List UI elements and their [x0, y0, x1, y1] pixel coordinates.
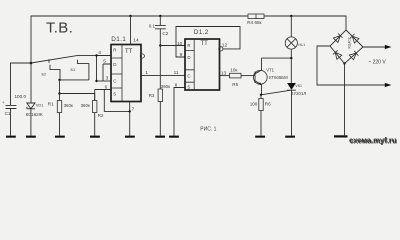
wire R1 to R2 link — [60, 94, 95, 101]
ground VD1 — [26, 136, 36, 138]
pin 2 inverted output circle — [140, 54, 144, 58]
bridge diode top-left — [333, 33, 342, 42]
wire bridge left to mains — [317, 46, 386, 85]
svg-text:R6: R6 — [265, 102, 271, 107]
wire bridge bottom to ground — [344, 64, 346, 136]
flip-flop D1.1 — [111, 45, 141, 102]
svg-text:~ 220 V: ~ 220 V — [368, 60, 386, 66]
flip-flop D1.2 — [185, 39, 220, 90]
resistor R4 68к in rail — [248, 14, 264, 19]
resistor R3 360к — [158, 89, 162, 102]
svg-text:D: D — [113, 62, 116, 67]
svg-text:R1: R1 — [48, 101, 54, 106]
transistor VT1 КТ605БМ — [253, 70, 267, 84]
svg-text:D1.1: D1.1 — [111, 36, 126, 43]
wire collector to lamp node — [262, 57, 292, 59]
wire gate — [261, 90, 290, 95]
svg-text:HL1: HL1 — [298, 43, 305, 47]
svg-text:11: 11 — [174, 70, 179, 76]
svg-text:КС162Ж: КС162Ж — [26, 112, 43, 117]
ground R2 — [90, 136, 100, 138]
ground pin8 — [169, 136, 179, 138]
svg-text:R2: R2 — [98, 113, 104, 118]
svg-text:14: 14 — [133, 38, 139, 44]
svg-text:D1.2: D1.2 — [194, 29, 209, 36]
ground R1 — [55, 136, 65, 138]
svg-text:РИС. 1: РИС. 1 — [200, 127, 216, 133]
thyristor VS1 КУ201Л — [290, 58, 292, 83]
ground R3 — [155, 136, 165, 138]
resistor R2 360к — [93, 101, 97, 113]
svg-text:100.0: 100.0 — [15, 94, 27, 99]
ground pin7 — [125, 136, 135, 138]
wire R5 to base — [241, 75, 255, 77]
svg-text:360к: 360к — [64, 103, 73, 108]
svg-text:3: 3 — [106, 76, 109, 82]
svg-text:TT: TT — [201, 41, 209, 47]
svg-text:R: R — [113, 48, 116, 53]
zener diode VD1 КС162Ж — [30, 63, 32, 103]
capacitor C2 0.1 — [155, 16, 166, 89]
svg-text:TT: TT — [125, 49, 133, 55]
svg-text:360к: 360к — [161, 84, 170, 89]
pin 12 inverted output circle — [219, 47, 223, 51]
ground R6 — [255, 136, 265, 138]
resistor R5 10к — [230, 73, 242, 78]
svg-text:R4 68к: R4 68к — [247, 20, 262, 25]
resistor R6 100 — [260, 95, 262, 99]
svg-text:6: 6 — [105, 85, 108, 91]
lamp HL1 — [290, 16, 292, 37]
svg-text:R5: R5 — [232, 82, 238, 87]
svg-text:C: C — [113, 79, 116, 84]
svg-text:C: C — [187, 74, 190, 79]
wire pin7 ground — [129, 102, 131, 136]
svg-text:схема.myf.ru: схема.myf.ru — [349, 136, 397, 145]
svg-text:360к: 360к — [81, 103, 90, 108]
wire pin1 to pin11 — [141, 75, 185, 77]
svg-text:12: 12 — [222, 42, 228, 48]
wire Q12 feedback to pin9 — [176, 27, 240, 58]
bridge diode top-right — [350, 34, 359, 43]
svg-text:13: 13 — [221, 70, 227, 76]
svg-text:0.1: 0.1 — [149, 23, 156, 28]
resistor R1 360к — [59, 80, 61, 101]
wire pin3 — [97, 80, 112, 82]
svg-text:Б2: Б2 — [42, 72, 47, 76]
node contacts R1 — [58, 79, 60, 81]
wire contacts bus — [60, 79, 89, 81]
wire C1 branch — [11, 63, 32, 105]
wire bridge right to mains — [363, 46, 386, 48]
switch contact Б2 — [50, 65, 60, 80]
svg-text:5: 5 — [103, 59, 106, 65]
wire top supply rail — [31, 16, 346, 63]
node pin14 rail junction — [129, 15, 131, 17]
node C2 bottom — [159, 44, 161, 46]
ground bridge — [334, 135, 348, 137]
wire pin10 — [160, 45, 185, 47]
wire pin4 node — [97, 56, 112, 82]
wire gnd link pin7 — [104, 90, 129, 112]
svg-text:R: R — [187, 43, 190, 48]
switch S1.1 arm — [31, 56, 97, 63]
wire S pin6 to R2 top — [95, 90, 111, 101]
svg-text:КЦ402: КЦ402 — [348, 37, 352, 48]
svg-text:S: S — [113, 92, 116, 97]
svg-text:Б1: Б1 — [71, 68, 76, 72]
svg-text:1: 1 — [145, 70, 148, 76]
switch contact Б1 — [78, 60, 89, 80]
svg-text:VT1: VT1 — [266, 68, 274, 73]
ground C1 — [6, 136, 16, 138]
svg-text:10к: 10к — [230, 67, 238, 72]
svg-text:S: S — [187, 85, 190, 90]
svg-text:7: 7 — [132, 106, 135, 112]
svg-text:100: 100 — [250, 102, 258, 107]
bridge diode bottom-left — [333, 50, 342, 59]
svg-text:C1: C1 — [5, 111, 11, 116]
node lamp rail junction — [290, 15, 292, 17]
svg-text:VD1: VD1 — [36, 103, 44, 108]
wire pin8 to ground — [174, 88, 185, 136]
capacitor C1 — [6, 106, 17, 136]
node C2 rail junction — [159, 15, 161, 17]
wire pin14 — [130, 16, 132, 45]
svg-text:VS1: VS1 — [295, 84, 302, 88]
diode bridge VD2 КЦ402 — [330, 30, 363, 64]
svg-text:R3: R3 — [149, 93, 155, 98]
svg-text:10: 10 — [177, 41, 183, 47]
svg-text:Т.В.: Т.В. — [46, 20, 73, 37]
svg-text:4: 4 — [98, 50, 101, 56]
svg-text:D: D — [187, 55, 190, 60]
wire pin5 — [103, 64, 111, 81]
svg-text:9: 9 — [180, 52, 183, 58]
svg-text:КУ201Л: КУ201Л — [291, 91, 306, 96]
svg-text:C2: C2 — [162, 31, 168, 36]
svg-text:КТ605БМ: КТ605БМ — [269, 75, 288, 80]
wire pin13 — [220, 75, 230, 77]
bridge diode bottom-right — [349, 51, 358, 60]
ground thyristor — [285, 136, 295, 138]
node switch junction A — [30, 62, 33, 65]
